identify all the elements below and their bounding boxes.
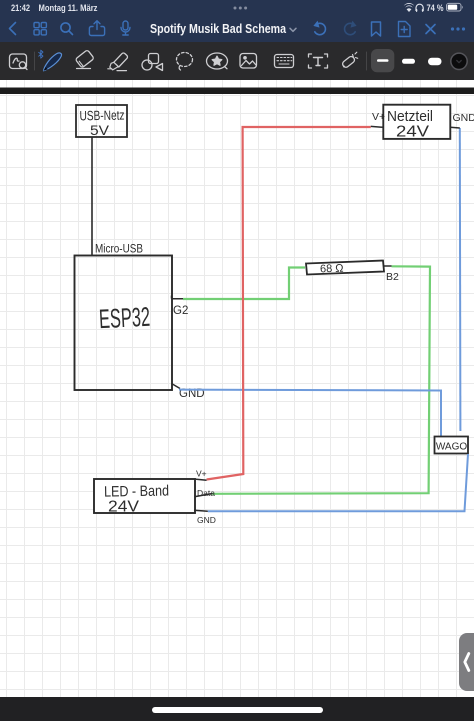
svg-text:GND: GND [197, 515, 216, 525]
close X [426, 25, 435, 34]
highlighter [108, 53, 128, 71]
undo arrow [313, 21, 325, 35]
laser pointer [341, 52, 357, 68]
thick page divider line [0, 88, 474, 95]
add page [399, 22, 411, 37]
thickness medium [402, 59, 415, 64]
pen tool (selected, blue) [39, 50, 62, 71]
bottom bar [0, 697, 474, 721]
svg-text:V+: V+ [372, 111, 385, 123]
box USB-Netz 5V [76, 105, 127, 138]
stub Data LED [194, 494, 212, 497]
redo arrow (dimmed) [345, 21, 357, 35]
svg-text:WAGO: WAGO [436, 442, 468, 453]
back chevron [10, 23, 16, 35]
element/zoom tool [10, 54, 28, 70]
stub GND Netzteil [450, 126, 460, 129]
box Netzteil 24V [383, 105, 450, 141]
svg-text:B2: B2 [386, 271, 399, 283]
shapes [142, 54, 163, 71]
home indicator [152, 707, 323, 713]
svg-text:GND: GND [453, 112, 474, 124]
navigation bar [0, 16, 474, 42]
wire red Netzteil V+ to LED V+ [207, 127, 371, 480]
status bar [0, 0, 474, 16]
stub GND LED [194, 510, 208, 511]
lasso [177, 53, 193, 67]
svg-text:V+: V+ [196, 469, 207, 479]
wire blue Netzteil GND down [459, 128, 462, 431]
svg-text:21:42: 21:42 [11, 3, 30, 13]
resistor right stub [383, 265, 392, 267]
svg-text:USB-Netz: USB-Netz [79, 108, 124, 124]
color swatch black [451, 53, 467, 69]
stub V+ Netzteil [371, 125, 384, 128]
eraser [75, 50, 94, 69]
svg-text:24V: 24V [396, 124, 429, 141]
svg-text:68 Ω: 68 Ω [320, 263, 344, 276]
share [89, 21, 104, 36]
stub V+ LED [194, 479, 207, 480]
search [61, 23, 73, 35]
bookmark [372, 22, 381, 36]
wire green G2 to resistor [183, 268, 305, 300]
svg-text:Netzteil: Netzteil [387, 108, 433, 125]
more ... [451, 27, 465, 30]
svg-text:G2: G2 [173, 305, 188, 317]
wire green resistor to LED Data [212, 266, 431, 494]
box WAGO [435, 437, 469, 454]
svg-text:Spotify Musik Bad Schema: Spotify Musik Bad Schema [150, 22, 287, 36]
sticker [207, 53, 228, 69]
IC ESP32 [75, 256, 173, 391]
resistor 68 ohm [306, 261, 384, 276]
wire blue ESP32 GND to WAGO [179, 390, 441, 437]
thickness thin (selected) [371, 49, 394, 72]
microphone [121, 21, 130, 35]
svg-text:Montag 11. März: Montag 11. März [39, 3, 98, 13]
battery icon [447, 3, 463, 11]
thickness thick [428, 58, 442, 65]
wifi icon [404, 3, 415, 12]
wire blue WAGO to LED GND [208, 454, 468, 511]
svg-text:ESP32: ESP32 [98, 302, 151, 335]
svg-text:74 %: 74 % [427, 3, 444, 13]
keyboard [275, 55, 294, 68]
svg-text:Micro-USB: Micro-USB [95, 244, 143, 256]
pin GND stub [172, 384, 181, 389]
text tool [309, 54, 328, 68]
image [240, 54, 257, 69]
svg-text:5V: 5V [90, 123, 109, 138]
pin G2 stub [172, 296, 184, 299]
tool bar [0, 42, 474, 80]
wire USB-Netz to ESP32 [91, 137, 93, 255]
headphones icon [416, 4, 423, 12]
box LED-Band 24V [94, 479, 195, 516]
page navigation tab [459, 633, 474, 691]
svg-text:24V: 24V [108, 499, 139, 516]
thumbnails grid [34, 23, 46, 35]
